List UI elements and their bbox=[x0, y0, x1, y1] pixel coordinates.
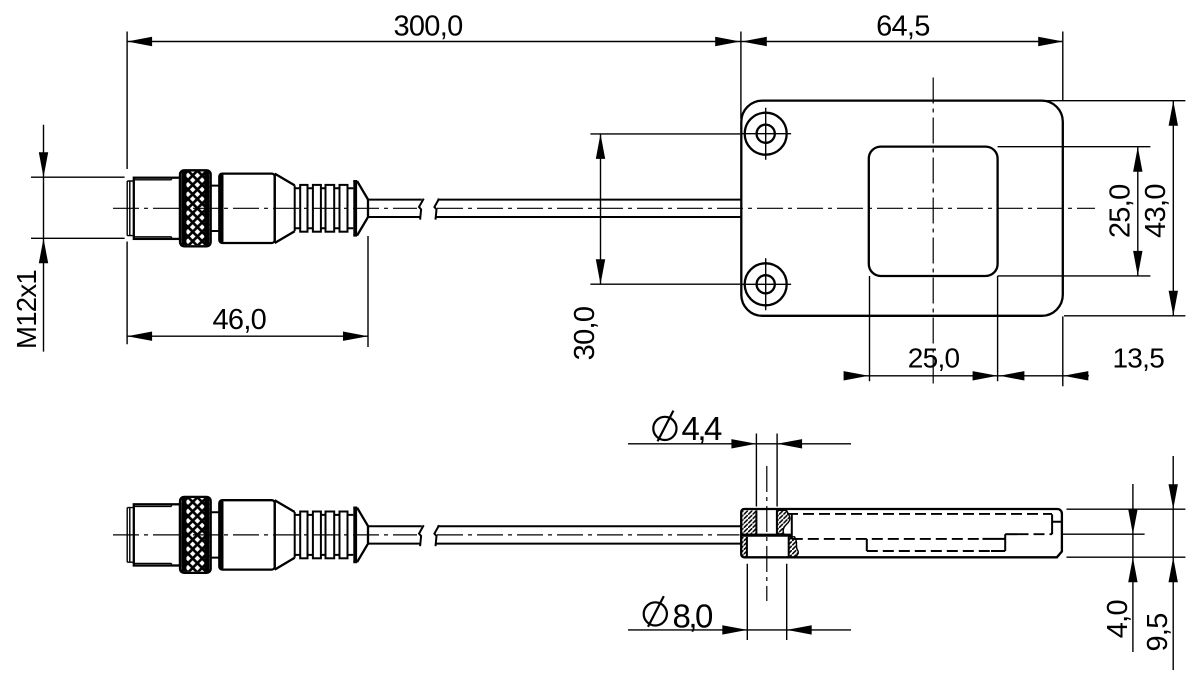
svg-text:9,5: 9,5 bbox=[1142, 613, 1174, 651]
dimension chain 25,0 / 13,5 below head bbox=[844, 375, 1090, 377]
svg-text:13,5: 13,5 bbox=[1112, 343, 1164, 374]
inner active face square bbox=[869, 147, 998, 276]
section block: upper right hatch with break edge bbox=[777, 510, 790, 534]
sensor body side view bar bbox=[741, 509, 1062, 557]
slot left solid edge bbox=[791, 513, 793, 539]
dimensions 4,0 and 9,5 right side bbox=[1062, 509, 1186, 557]
diameter symbol 4,4 bbox=[653, 417, 676, 440]
top right notch bbox=[1052, 514, 1062, 534]
hidden slot top line bbox=[787, 513, 1052, 515]
dimension 46,0 bbox=[127, 335, 368, 337]
dimension 64,5 bbox=[742, 37, 767, 46]
section block: lower right hatch with break edge bbox=[789, 537, 799, 557]
svg-text:4,0: 4,0 bbox=[1102, 600, 1134, 638]
dimension diameter 4,4 bbox=[628, 443, 851, 445]
section block: lower left hatch sliver bbox=[741, 537, 747, 557]
head vertical centerline bbox=[932, 78, 934, 389]
hidden middle line bbox=[792, 538, 983, 540]
dimension 30,0 bbox=[600, 134, 602, 284]
svg-text:64,5: 64,5 bbox=[876, 11, 930, 43]
mounting hole lower bbox=[745, 263, 787, 305]
svg-text:30,0: 30,0 bbox=[569, 307, 601, 361]
svg-text:4,4: 4,4 bbox=[682, 410, 723, 447]
svg-text:43,0: 43,0 bbox=[1140, 184, 1172, 238]
svg-text:46,0: 46,0 bbox=[212, 304, 266, 336]
svg-text:25,0: 25,0 bbox=[1105, 184, 1137, 238]
centerline (bottom view) bbox=[113, 534, 417, 536]
dimension 43,0 bbox=[1172, 101, 1174, 316]
dimension diameter 8,0 bbox=[628, 629, 851, 631]
svg-text:300,0: 300,0 bbox=[393, 11, 462, 43]
connector with cable (top view) bbox=[127, 170, 741, 246]
svg-text:25,0: 25,0 bbox=[908, 343, 960, 374]
connector with cable (bottom view) bbox=[127, 497, 741, 573]
svg-text:M12x1: M12x1 bbox=[11, 270, 42, 349]
section block: upper left hatch bbox=[742, 510, 756, 534]
ledge thick line bbox=[742, 534, 791, 537]
svg-text:8,0: 8,0 bbox=[673, 598, 714, 635]
hidden step bbox=[866, 539, 868, 551]
dimension 25,0 vertical right bbox=[1137, 147, 1139, 276]
dimension M12x1 bbox=[43, 125, 45, 352]
dimension 300,0 bbox=[127, 41, 1063, 43]
sensor head outline bbox=[741, 101, 1063, 316]
mounting hole upper bbox=[745, 113, 787, 155]
centerline (top view) bbox=[113, 207, 417, 209]
block vertical centerline bbox=[766, 466, 768, 601]
